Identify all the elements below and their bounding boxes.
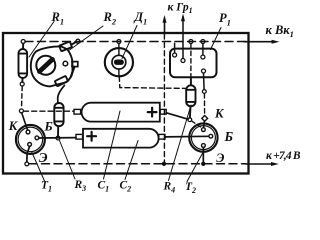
leader line R3 xyxy=(60,141,76,180)
T2 pin К xyxy=(202,128,206,132)
node: R4 bottom terminal xyxy=(188,118,192,122)
wire: dashed through relay from bus to R4 top xyxy=(190,44,192,85)
wire: dashed vertical from Гр1 arrow 1 down to emitter bus xyxy=(163,34,165,164)
node: diamond terminal К of T2 xyxy=(202,116,208,122)
wire: diode bottom dashed down and right to R4 xyxy=(119,76,186,88)
leader line C1 xyxy=(104,111,121,179)
relay P1 body xyxy=(170,49,217,78)
transistor T1 xyxy=(16,125,45,154)
wire: T1 Э pin down to emitter terminal xyxy=(27,146,30,162)
leader line R2 xyxy=(70,26,104,50)
resistor R3 xyxy=(54,103,63,136)
leader line Р1 xyxy=(211,28,222,50)
relay pin circles inside xyxy=(173,53,177,57)
wire: diamond to T2 К pin xyxy=(203,122,206,128)
node: relay terminal on bus 2 xyxy=(201,40,205,44)
T1 pin Э xyxy=(28,143,32,147)
T2 pin Э xyxy=(202,144,206,148)
wire: T2 Э pin down to emitter bus xyxy=(202,147,204,162)
T1 pin К xyxy=(26,130,30,134)
wire: R2 bottom tab to R3 top xyxy=(58,85,65,103)
R2 screw slot xyxy=(36,56,55,75)
R2 top tab xyxy=(59,41,72,51)
diode Д1 xyxy=(105,48,133,76)
wire: top dashed bus (net to Вк1) xyxy=(25,41,246,43)
wire: collector terminal to T1 К pin xyxy=(22,113,28,130)
svg-text:к +7,4 В: к +7,4 В xyxy=(266,150,301,162)
leader line T1 xyxy=(32,152,45,182)
node: R1 top terminal on bus xyxy=(21,40,25,44)
wire: dashed down to T2 collector diamond xyxy=(203,94,205,115)
svg-text:Э: Э xyxy=(39,150,48,165)
leader line Д1 xyxy=(122,26,137,59)
T2 pin Б xyxy=(209,134,213,138)
resistor R1 xyxy=(19,44,28,82)
wire: dash-dot collector line to C1 left lug xyxy=(24,110,75,112)
node: terminal below relay xyxy=(202,90,206,94)
arrow: к +7,4 В xyxy=(246,163,272,165)
wire: R2 top tab to bus terminal xyxy=(72,42,77,45)
capacitor C2 xyxy=(76,129,165,148)
wire: C2 right lug to T2 Б pin xyxy=(165,135,209,138)
wire: dashed from R4 terminal to T2 К pin xyxy=(192,121,202,128)
svg-text:Б: Б xyxy=(224,129,234,144)
node: Д1 terminal on bus xyxy=(117,40,121,44)
leader line T2 xyxy=(187,152,204,182)
svg-text:К: К xyxy=(8,119,19,133)
wire: dashed from R1 bottom to collector terminal xyxy=(21,86,24,108)
wire: bus stub down to relay pin xyxy=(174,43,176,53)
wire: bus terminal down to relay pin xyxy=(202,44,204,55)
node: relay terminal on bus 1 xyxy=(189,40,193,44)
node: emitter terminal of T1 xyxy=(25,162,29,166)
R2 right square lug xyxy=(72,62,78,67)
wire: relay pin down to terminal below relay xyxy=(203,73,206,89)
arrow: к Вк1 xyxy=(244,41,272,43)
svg-text:к Вк1: к Вк1 xyxy=(266,23,294,39)
resistor R4 xyxy=(186,77,195,118)
leader line R1 xyxy=(29,22,54,58)
svg-text:К: К xyxy=(214,107,225,121)
node: collector terminal of T1 xyxy=(19,109,23,113)
svg-text:Э: Э xyxy=(216,151,224,165)
arrow: к Гр1 lead 2 xyxy=(181,14,185,22)
leader line C2 xyxy=(125,141,138,180)
board outline xyxy=(3,33,249,174)
wire: T1 Б pin to R3 terminal to C2 left lug xyxy=(39,137,76,139)
node: R3 bottom terminal xyxy=(56,136,60,140)
R2 small hole xyxy=(63,61,68,66)
arrow: к Гр1 lead 1 xyxy=(164,19,166,34)
transistor T2 xyxy=(189,123,217,151)
trimmer resistor R2 body xyxy=(31,41,78,86)
T1 pin Б xyxy=(35,136,39,140)
node: R1 bottom terminal xyxy=(20,82,24,86)
node: junction dot of Гр1 wire on emitter bus xyxy=(162,162,166,166)
wire: Гр1 arrow 2 shaft down to relay pin xyxy=(182,17,184,59)
node: R2 terminal on bus xyxy=(76,39,80,43)
wire: bottom dashed emitter bus (net to +7,4 В) xyxy=(29,163,246,165)
svg-text:Б: Б xyxy=(44,119,53,134)
R2 bottom tab xyxy=(55,76,68,86)
capacitor C1 xyxy=(74,103,166,122)
wire: C1 right lug to R4 bottom terminal xyxy=(166,113,188,119)
R2 right lug leg xyxy=(71,67,74,77)
node: junction dot of T2 emitter on bus xyxy=(201,162,205,166)
wire: bus to diode top (dashed) xyxy=(118,44,120,48)
leader line R4 xyxy=(169,105,192,181)
